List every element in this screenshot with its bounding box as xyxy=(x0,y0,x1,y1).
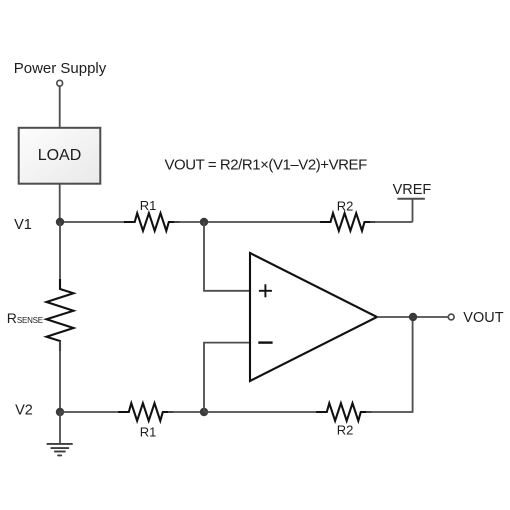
wire power supply to LOAD xyxy=(59,87,61,128)
svg-text:V1: V1 xyxy=(14,217,32,233)
svg-text:LOAD: LOAD xyxy=(38,147,82,164)
node B junction bottom xyxy=(200,408,208,416)
svg-text:R1: R1 xyxy=(140,198,157,213)
wire node A down to plus input xyxy=(204,222,250,291)
svg-text:Power Supply: Power Supply xyxy=(14,60,107,77)
terminal VREF bar xyxy=(397,198,425,200)
resistor RSENSE xyxy=(47,279,74,351)
svg-text:V2: V2 xyxy=(15,403,33,419)
resistor R1 top xyxy=(124,213,179,231)
wire node B to R2 bottom xyxy=(204,411,327,413)
svg-text:VOUT: VOUT xyxy=(463,310,503,326)
resistor R2 bottom xyxy=(316,403,371,421)
wire RSENSE to node V2 xyxy=(59,341,61,412)
node V1 junction xyxy=(56,218,64,226)
wire VREF drop xyxy=(412,199,414,222)
op-amp minus input sign xyxy=(258,341,272,343)
svg-text:VOUT = R2/R1×(V1–V2)+VREF: VOUT = R2/R1×(V1–V2)+VREF xyxy=(165,157,368,174)
wire V1 down to RSENSE xyxy=(59,222,61,290)
block LOAD xyxy=(19,128,101,184)
op-amp U1 xyxy=(250,253,377,381)
svg-text:R1: R1 xyxy=(140,424,157,439)
ground xyxy=(47,444,73,456)
node A junction top xyxy=(200,218,208,226)
resistor R2 top xyxy=(320,213,375,231)
wire R2 bottom to feedback corner xyxy=(366,317,413,412)
terminal Power Supply xyxy=(57,80,63,86)
wire node B up to minus input xyxy=(204,343,250,412)
node VOUT junction xyxy=(409,313,417,321)
wire R1 bottom to node B xyxy=(168,411,204,413)
wire node A to R2 top xyxy=(204,221,330,223)
svg-text:R2: R2 xyxy=(337,423,354,438)
wire V2 to R1 bottom xyxy=(60,411,125,413)
op-amp plus input sign xyxy=(259,284,272,297)
svg-text:VREF: VREF xyxy=(393,182,432,198)
wire R1 top to node A xyxy=(174,221,204,223)
resistor R1 bottom xyxy=(118,403,173,421)
node V2 junction xyxy=(56,408,64,416)
wire op-amp output to VOUT terminal xyxy=(377,316,448,318)
wire R2 top to VREF xyxy=(370,221,413,223)
terminal VOUT xyxy=(448,314,454,320)
svg-text:R2: R2 xyxy=(337,199,354,214)
wire LOAD to node V1 xyxy=(59,184,61,222)
wire V1 to R1 top xyxy=(60,221,130,223)
wire V2 to ground xyxy=(59,412,61,444)
